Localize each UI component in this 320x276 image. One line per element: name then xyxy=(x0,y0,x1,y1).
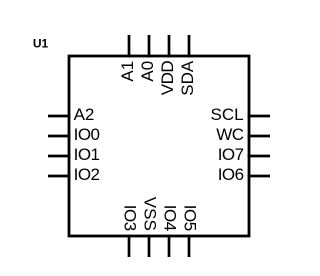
svg-text:IO3: IO3 xyxy=(121,205,140,231)
svg-text:IO6: IO6 xyxy=(218,165,244,184)
svg-text:SCL: SCL xyxy=(211,105,244,124)
svg-text:A0: A0 xyxy=(138,61,157,82)
svg-text:IO4: IO4 xyxy=(161,205,180,231)
svg-text:VDD: VDD xyxy=(158,61,177,96)
svg-text:A2: A2 xyxy=(74,105,95,124)
svg-text:U1: U1 xyxy=(33,37,49,51)
svg-text:VSS: VSS xyxy=(141,197,160,231)
svg-text:WC: WC xyxy=(216,125,244,144)
svg-text:IO5: IO5 xyxy=(181,205,200,231)
svg-text:SDA: SDA xyxy=(178,60,197,96)
svg-text:IO2: IO2 xyxy=(74,165,100,184)
svg-text:IO0: IO0 xyxy=(74,125,100,144)
svg-text:IO1: IO1 xyxy=(74,145,100,164)
svg-text:IO7: IO7 xyxy=(218,145,244,164)
svg-text:A1: A1 xyxy=(118,61,137,82)
